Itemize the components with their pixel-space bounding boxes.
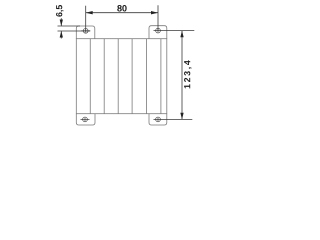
dimension 6,5: dimension line upper	[60, 18, 62, 26]
dimension 80: arrowhead left	[86, 11, 93, 14]
top-right tab	[149, 26, 167, 39]
dimension 6,5: extension line to hole center	[58, 30, 91, 32]
segment divider line 6	[160, 39, 162, 114]
dimension 80: arrowhead right	[151, 11, 158, 14]
mounting hole bottom-left	[81, 117, 90, 122]
dimension 6,5: arrowhead down	[60, 20, 63, 27]
dimension 6,5: arrowhead up	[60, 31, 63, 38]
dimension 123,4: arrowhead down	[180, 113, 183, 120]
segment divider line 5	[146, 39, 148, 114]
mounting hole top-right	[156, 28, 161, 33]
dimension 6,5: dimension line lower	[60, 31, 62, 39]
dimension 123,4: extension line top (through hole)	[154, 30, 195, 32]
dimension 80: value label	[117, 5, 126, 12]
bottom-left tab	[76, 114, 95, 125]
dimension 123,4: extension line bottom (through hole)	[154, 118, 193, 120]
segment divider line 1	[89, 39, 91, 114]
mounting hole top-left	[83, 28, 88, 33]
segment divider line 4	[131, 39, 133, 114]
dimension 123,4: dimension line	[181, 31, 183, 120]
dimension 80: extension line left	[85, 6, 87, 31]
bottom-right tab	[149, 114, 167, 125]
dimension 123,4: arrowhead up	[180, 31, 183, 38]
dimension 123,4: value label	[184, 60, 192, 88]
segment divider line 3	[117, 39, 119, 114]
segment divider line 2	[103, 39, 105, 114]
top-left tab	[76, 26, 95, 39]
dimension 6,5: value label	[56, 5, 64, 17]
dimension 6,5: extension line to tab top	[58, 25, 81, 27]
hole crossline top-left (extends to 6,5 extension)	[81, 30, 90, 32]
dimension 80: dimension line	[86, 12, 158, 14]
body rectangle	[76, 39, 167, 114]
mounting hole bottom-right	[156, 117, 161, 122]
dimension 80: extension line right	[157, 5, 159, 30]
